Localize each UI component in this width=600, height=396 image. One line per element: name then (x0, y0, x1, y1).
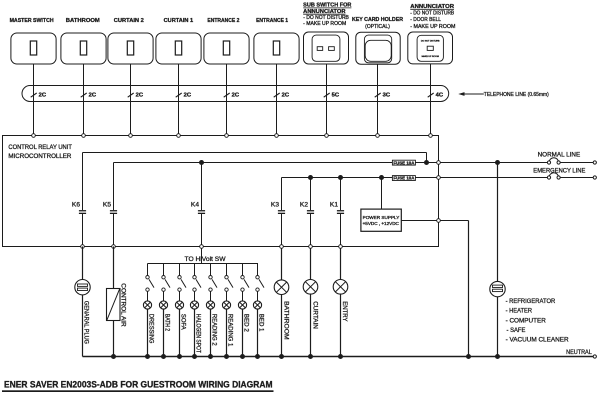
switch and lamp BED 1 (253, 264, 264, 360)
svg-text:2C: 2C (136, 93, 144, 99)
svg-text:ENER SAVER EN2003S-ADB FOR GUE: ENER SAVER EN2003S-ADB FOR GUESTROOM WIR… (4, 379, 273, 389)
title (2, 379, 274, 392)
svg-text:5C: 5C (332, 93, 340, 99)
terminal power supply output on controller right edge (437, 219, 441, 223)
relay K3 (271, 178, 285, 247)
switch and lamp HALOGEN SPOT (190, 264, 201, 360)
svg-text:CURTAIN: CURTAIN (311, 301, 318, 329)
relay K1 (330, 178, 344, 247)
switch and lamp READING 1 (222, 264, 233, 360)
terminal relay K2 output on controller bottom edge (309, 245, 313, 249)
cable label 3C at x=377.5 (375, 93, 391, 99)
telephone line callout arrow (458, 92, 484, 96)
junction power supply / emergency rail (379, 175, 384, 180)
label control relay unit microcontroller (8, 144, 72, 160)
cable duct (telephone line bus) (22, 86, 449, 102)
svg-text:CURTAIN 1: CURTAIN 1 (164, 18, 194, 24)
svg-text:NORMAL LINE: NORMAL LINE (538, 152, 581, 159)
key card holder (optical) (356, 32, 400, 64)
wire sub-switch to controller (326, 64, 328, 136)
terminal on controller top edge x=276.5 (275, 134, 279, 138)
label key card holder (352, 17, 403, 30)
junction bathroom lamp / neutral (279, 354, 284, 359)
control relay unit / microcontroller box U1 (3, 136, 439, 247)
svg-text:4C: 4C (436, 93, 444, 99)
relay K2 (300, 178, 314, 247)
switch and lamp DRESSING (143, 264, 154, 360)
svg-text:MAKE UP ROOM: MAKE UP ROOM (422, 55, 439, 58)
svg-text:MASTER SWITCH: MASTER SWITCH (10, 18, 54, 24)
svg-text:POWER SUPPLY: POWER SUPPLY (363, 215, 400, 220)
terminal on controller top edge x=430.5 (429, 134, 433, 138)
switch S6 ENTRANCE 1 (254, 18, 299, 64)
svg-text:2C: 2C (184, 93, 192, 99)
cable label 4C at x=430.5 (428, 93, 444, 99)
terminal on controller top edge x=326.5 (325, 134, 329, 138)
wire power supply output to loads (401, 221, 468, 357)
svg-text:- MAKE UP ROOM: - MAKE UP ROOM (410, 24, 455, 30)
cable label 2C at x=83.5 (81, 93, 97, 99)
cable label 2C at x=178.5 (176, 93, 192, 99)
lamp ENTRY (333, 248, 348, 356)
terminal emergency line on controller right edge (437, 176, 441, 180)
svg-text:GENARAL PLUG: GENARAL PLUG (82, 301, 89, 344)
cable label 2C at x=276.5 (274, 93, 290, 99)
lamp BATHROOM (274, 248, 290, 356)
node NEUTRAL bus (83, 355, 597, 358)
svg-text:BATHROOM: BATHROOM (66, 18, 100, 24)
cable label 2C at x=130.5 (128, 93, 144, 99)
label annunciator (410, 4, 455, 30)
svg-text:K3: K3 (271, 201, 279, 208)
socket P2 appliance outlet (490, 281, 505, 356)
svg-text:READING 1: READING 1 (227, 314, 234, 347)
sub switch for annunciator SW7 (304, 32, 349, 64)
terminal relay K3 output on controller bottom edge (280, 245, 284, 249)
svg-text:ENTRY: ENTRY (341, 301, 348, 322)
junction K4 / normal rail (199, 160, 204, 165)
wire normal rail (K5/K4 to fuse F1) (114, 162, 439, 164)
switch and lamp SOFA (175, 264, 186, 360)
label sub switch for annunciator (303, 3, 351, 27)
switch and lamp BED 2 (238, 264, 249, 360)
terminal normal line on controller right edge (437, 161, 441, 165)
svg-text:2C: 2C (89, 93, 97, 99)
svg-text:- COMPUTER: - COMPUTER (506, 317, 546, 324)
annunciator unit (408, 32, 453, 64)
svg-text:CONTROL RELAY UNIT: CONTROL RELAY UNIT (8, 144, 72, 151)
svg-text:KEY CARD HOLDER: KEY CARD HOLDER (352, 17, 403, 23)
terminal relay K4 output on controller bottom edge (200, 245, 204, 249)
svg-text:- MAKE UP ROOM: - MAKE UP ROOM (303, 21, 346, 27)
svg-text:EMERGENCY LINE: EMERGENCY LINE (533, 167, 585, 174)
svg-text:3C: 3C (383, 93, 391, 99)
switch S5 ENTRANCE 2 (204, 18, 249, 64)
svg-text:2C: 2C (39, 93, 47, 99)
wire S1 to controller (33, 64, 35, 136)
junction curtain lamp / neutral (308, 354, 313, 359)
junction K1 / emergency rail (338, 175, 343, 180)
svg-text:BATH 2: BATH 2 (164, 314, 171, 332)
switch S1 MASTER SWITCH (10, 18, 56, 64)
lamp CURTAIN (303, 248, 318, 356)
wire S5 to controller (226, 64, 228, 136)
svg-text:K1: K1 (330, 201, 338, 208)
terminal on controller top edge x=130.5 (129, 134, 133, 138)
terminal on controller top edge x=178.5 (177, 134, 181, 138)
switch and lamp BATH 2 (159, 264, 170, 360)
svg-text:K6: K6 (72, 201, 80, 208)
switch S4 CURTAIN 1 (156, 18, 201, 64)
junction entry lamp / neutral (338, 354, 343, 359)
svg-text:K4: K4 (191, 201, 199, 208)
terminal on controller top edge x=226.5 (225, 134, 229, 138)
svg-text:BED 2: BED 2 (243, 314, 250, 332)
fuse F1 FUSE 10A (392, 160, 415, 165)
svg-text:HALOGEN SPOT: HALOGEN SPOT (195, 314, 202, 353)
svg-text:FUSE 10A: FUSE 10A (393, 176, 415, 181)
node NORMAL LINE (440, 158, 596, 164)
relay K6 (72, 153, 86, 247)
terminal on controller top edge x=33.5 (32, 134, 36, 138)
wire rail from relay K6 to normal-line node (83, 153, 427, 163)
svg-text:BED 1: BED 1 (258, 314, 265, 332)
svg-text:- HEATER: - HEATER (506, 308, 533, 315)
switch S3 CURTAIN 2 (108, 18, 153, 64)
svg-text:- REFRIGERATOR: - REFRIGERATOR (506, 298, 556, 305)
svg-text:- SAFE: - SAFE (507, 327, 526, 334)
svg-text:ENTRANCE 2: ENTRANCE 2 (207, 18, 239, 24)
svg-text:CONTROL AIR: CONTROL AIR (119, 283, 126, 327)
fuse F2 FUSE 10A (392, 176, 415, 181)
junction power supply feed / neutral (466, 354, 471, 359)
cable label 2C at x=226.5 (224, 93, 240, 99)
svg-text:2C: 2C (282, 93, 290, 99)
svg-text:- VACUUM CLEANER: - VACUUM CLEANER (506, 337, 569, 344)
svg-text:K2: K2 (300, 201, 308, 208)
svg-text:NEUTRAL: NEUTRAL (566, 349, 592, 356)
svg-text:DRESSING: DRESSING (148, 314, 155, 344)
svg-text:2C: 2C (232, 93, 240, 99)
wire S6 to controller (276, 64, 278, 136)
wire K4 output to hi-volt switch bus (201, 248, 203, 263)
svg-text:SOFA: SOFA (180, 314, 187, 330)
actuator CONTROL AIR (107, 247, 121, 357)
junction socket P2 / neutral (495, 354, 500, 359)
svg-text:TELEPHONE LINE (0.65mm): TELEPHONE LINE (0.65mm) (484, 92, 549, 98)
junction normal line / socket drop (495, 160, 500, 165)
junction K6 elbow / normal rail (424, 160, 429, 165)
svg-text:- DO NOT DISTURB: - DO NOT DISTURB (410, 11, 454, 17)
switch and lamp READING 2 (206, 264, 217, 360)
svg-text:ENTRANCE 1: ENTRANCE 1 (256, 18, 288, 24)
svg-text:- DOOR BELL: - DOOR BELL (410, 17, 441, 23)
terminal relay K5 output on controller bottom edge (112, 245, 116, 249)
wire S3 to controller (130, 64, 132, 136)
wire key card holder to controller (377, 64, 379, 135)
node EMERGENCY LINE (440, 173, 596, 179)
terminal relay K1 output on controller bottom edge (339, 245, 343, 249)
cable label 5C at x=326.5 (324, 93, 340, 99)
cable label 2C at x=33.5 (31, 93, 47, 99)
svg-text:(OPTICAL): (OPTICAL) (365, 24, 390, 30)
svg-text:DO NOT DISTURB: DO NOT DISTURB (421, 41, 440, 43)
wire normal line down to socket P2 (497, 163, 499, 282)
power supply PS1 (361, 178, 401, 232)
terminal on controller top edge x=83.5 (82, 134, 86, 138)
svg-text:FUSE 10A: FUSE 10A (393, 160, 415, 165)
junction K2 / emergency rail (308, 175, 313, 180)
svg-text:TO HiVolt SW: TO HiVolt SW (185, 256, 226, 263)
relay K4 (191, 163, 205, 247)
switch S2 BATHROOM (61, 18, 106, 64)
terminal relay K6 output on controller bottom edge (81, 245, 85, 249)
hi-volt switch bus (148, 263, 259, 265)
label appliance list (506, 298, 569, 344)
terminal on controller top edge x=377.5 (376, 134, 380, 138)
socket P1 GENARAL PLUG (75, 247, 90, 357)
svg-text:BATHROOM: BATHROOM (283, 301, 290, 339)
svg-text:MICROCONTROLLER: MICROCONTROLLER (8, 153, 72, 160)
wire emergency rail (K3/K2/K1 to fuse F2) (282, 177, 439, 179)
wire annunciator to controller (430, 64, 432, 136)
svg-text:K5: K5 (103, 201, 111, 208)
junction control air / neutral (111, 354, 116, 359)
svg-text:READING 2: READING 2 (211, 314, 218, 346)
relay K5 (103, 163, 117, 247)
svg-text:CURTAIN 2: CURTAIN 2 (114, 18, 144, 24)
svg-text:+5VDC , +12VDC: +5VDC , +12VDC (363, 221, 399, 226)
wire S4 to controller (178, 64, 180, 136)
wire S2 to controller (83, 64, 85, 136)
